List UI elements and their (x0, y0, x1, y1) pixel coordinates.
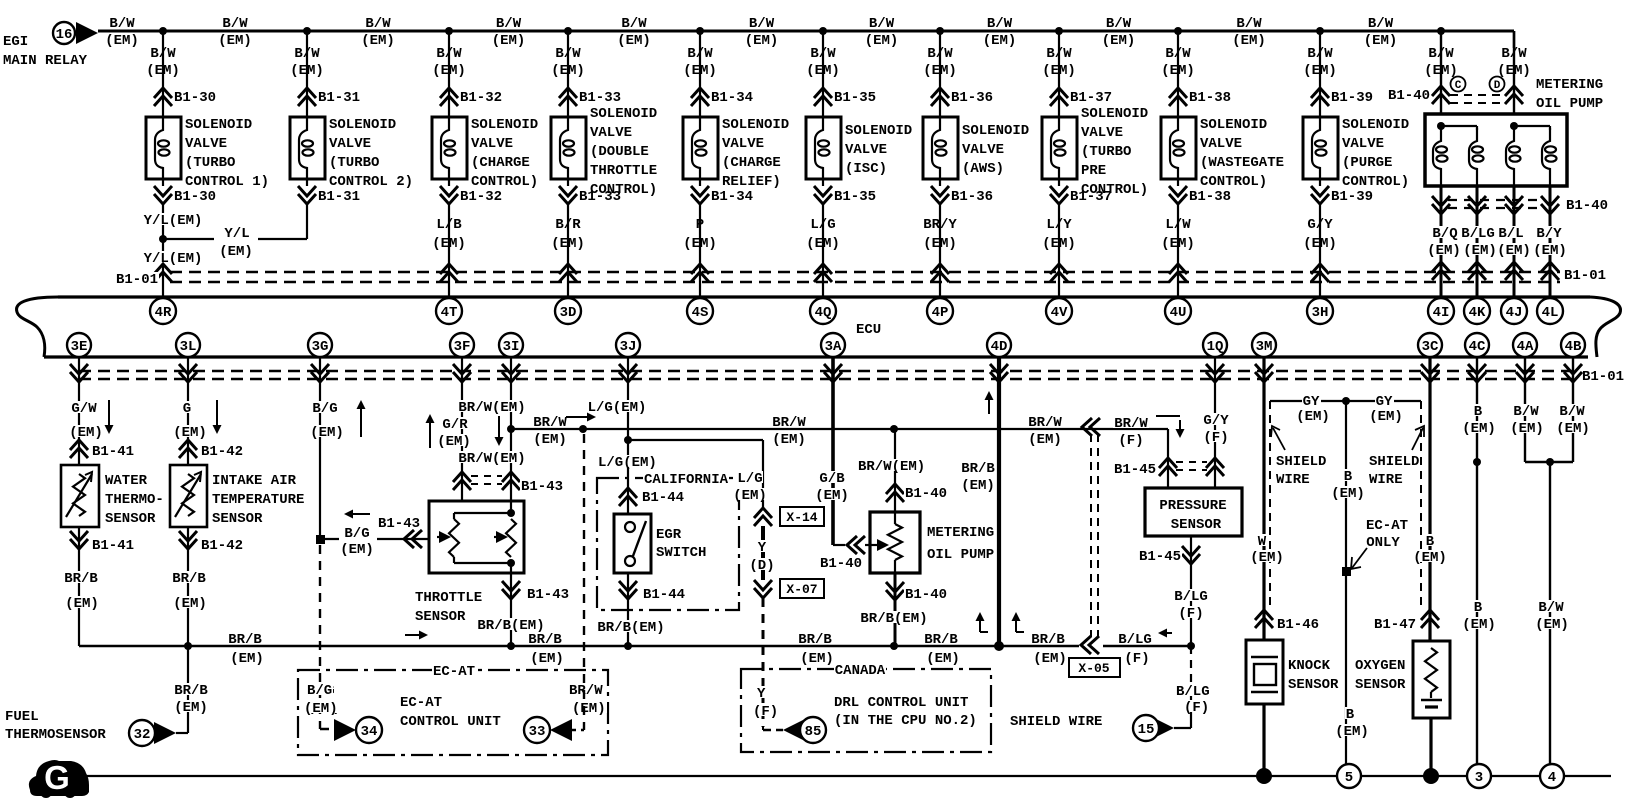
svg-text:CALIFORNIA: CALIFORNIA (644, 472, 729, 488)
svg-text:(EM): (EM) (926, 651, 960, 667)
svg-text:BR/B: BR/B (961, 461, 995, 477)
svg-text:(EM): (EM) (1369, 409, 1403, 425)
svg-text:SHIELD: SHIELD (1369, 454, 1419, 470)
svg-text:B: B (1474, 404, 1483, 420)
svg-text:SENSOR: SENSOR (105, 511, 156, 527)
svg-text:3F: 3F (454, 339, 471, 355)
svg-text:BR/W: BR/W (569, 683, 603, 699)
svg-text:(EM): (EM) (1331, 486, 1365, 502)
svg-text:3I: 3I (503, 339, 520, 355)
svg-text:4T: 4T (441, 305, 458, 321)
svg-text:(D): (D) (749, 558, 774, 574)
svg-text:BR/B(EM): BR/B(EM) (597, 620, 664, 636)
svg-text:B1-45: B1-45 (1139, 549, 1181, 565)
svg-text:(EM): (EM) (865, 33, 899, 49)
svg-text:SENSOR: SENSOR (1355, 677, 1406, 693)
svg-text:(EM): (EM) (1424, 63, 1458, 79)
svg-text:3: 3 (1475, 770, 1483, 786)
svg-text:B: B (1426, 534, 1435, 550)
svg-text:B/W: B/W (555, 46, 581, 62)
svg-text:(EM): (EM) (1533, 243, 1567, 259)
svg-text:(EM): (EM) (923, 63, 957, 79)
svg-text:(EM): (EM) (230, 651, 264, 667)
svg-text:B1-37: B1-37 (1070, 90, 1112, 106)
svg-text:SHIELD WIRE: SHIELD WIRE (1010, 714, 1102, 730)
svg-text:INTAKE AIR: INTAKE AIR (212, 473, 297, 489)
svg-text:ECU: ECU (856, 322, 881, 338)
svg-text:SOLENOID: SOLENOID (185, 117, 252, 133)
svg-text:Y/L(EM): Y/L(EM) (144, 213, 203, 229)
svg-text:L/B: L/B (436, 217, 462, 233)
svg-text:B1-47: B1-47 (1374, 617, 1416, 633)
svg-text:B1-32: B1-32 (460, 90, 502, 106)
svg-text:B/Q: B/Q (1432, 226, 1457, 242)
svg-text:CANADA: CANADA (835, 663, 886, 679)
svg-text:B1-42: B1-42 (201, 444, 243, 460)
svg-text:B/W: B/W (1236, 16, 1262, 32)
svg-text:3J: 3J (620, 339, 637, 355)
svg-text:85: 85 (805, 724, 822, 740)
svg-text:B/W: B/W (810, 46, 836, 62)
svg-text:3A: 3A (825, 339, 842, 355)
svg-text:B/W: B/W (1165, 46, 1191, 62)
svg-text:(EM): (EM) (572, 701, 606, 717)
svg-text:4U: 4U (1170, 305, 1187, 321)
svg-text:(EM): (EM) (1463, 243, 1497, 259)
svg-text:KNOCK: KNOCK (1288, 658, 1331, 674)
svg-text:L/G(EM): L/G(EM) (598, 455, 657, 471)
svg-text:(EM): (EM) (806, 236, 840, 252)
svg-text:B/W: B/W (1501, 46, 1527, 62)
svg-text:4R: 4R (155, 305, 172, 321)
svg-text:VALVE: VALVE (1200, 136, 1242, 152)
svg-text:(EM): (EM) (551, 236, 585, 252)
svg-text:15: 15 (1138, 722, 1155, 738)
svg-text:(PURGE: (PURGE (1342, 155, 1392, 171)
svg-text:B/LG: B/LG (1118, 632, 1152, 648)
svg-text:B1-38: B1-38 (1189, 189, 1231, 205)
svg-text:(EM): (EM) (1161, 63, 1195, 79)
svg-text:(EM): (EM) (1303, 63, 1337, 79)
svg-text:4: 4 (1548, 770, 1556, 786)
svg-text:THERMO-: THERMO- (105, 492, 164, 508)
svg-text:BR/W(EM): BR/W(EM) (858, 459, 925, 475)
svg-text:(EM): (EM) (1413, 550, 1447, 566)
svg-text:3D: 3D (560, 305, 577, 321)
svg-text:PRESSURE: PRESSURE (1159, 498, 1226, 514)
svg-text:SENSOR: SENSOR (1171, 517, 1222, 533)
svg-text:B/W: B/W (436, 46, 462, 62)
svg-text:B1-37: B1-37 (1070, 189, 1112, 205)
svg-text:4B: 4B (1565, 339, 1582, 355)
svg-text:SOLENOID: SOLENOID (722, 117, 789, 133)
svg-text:B1-44: B1-44 (642, 490, 684, 506)
svg-text:(EM): (EM) (1510, 421, 1544, 437)
svg-text:(EM): (EM) (1033, 651, 1067, 667)
svg-text:4A: 4A (1517, 339, 1534, 355)
svg-text:4D: 4D (991, 339, 1008, 355)
svg-text:B/L: B/L (1498, 226, 1523, 242)
svg-text:BR/W: BR/W (1114, 416, 1148, 432)
svg-text:B1-31: B1-31 (318, 189, 360, 205)
svg-text:SOLENOID: SOLENOID (1200, 117, 1267, 133)
svg-text:(F): (F) (1124, 651, 1149, 667)
svg-text:BR/Y: BR/Y (923, 217, 957, 233)
svg-text:16: 16 (56, 27, 73, 43)
svg-text:G/R: G/R (442, 417, 468, 433)
svg-text:(F): (F) (1178, 606, 1203, 622)
svg-text:RELIEF): RELIEF) (722, 174, 781, 190)
svg-text:CONTROL): CONTROL) (1342, 174, 1409, 190)
svg-text:G/B: G/B (819, 471, 845, 487)
svg-text:SOLENOID: SOLENOID (962, 123, 1029, 139)
svg-text:(EM): (EM) (1028, 432, 1062, 448)
svg-text:B1-43: B1-43 (378, 516, 420, 532)
svg-text:B1-01: B1-01 (1582, 369, 1624, 385)
svg-text:(EM): (EM) (1497, 63, 1531, 79)
svg-text:METERING: METERING (1536, 77, 1603, 93)
svg-text:CONTROL 1): CONTROL 1) (185, 174, 269, 190)
svg-text:B/Y: B/Y (1536, 226, 1562, 242)
svg-text:MAIN RELAY: MAIN RELAY (3, 53, 88, 69)
svg-text:(EM): (EM) (290, 63, 324, 79)
svg-text:TEMPERATURE: TEMPERATURE (212, 492, 304, 508)
svg-text:L/G(EM): L/G(EM) (588, 400, 647, 416)
svg-text:(EM): (EM) (1462, 421, 1496, 437)
svg-text:(ISC): (ISC) (845, 161, 887, 177)
svg-text:THERMOSENSOR: THERMOSENSOR (5, 727, 106, 743)
svg-text:EGI: EGI (3, 34, 28, 50)
svg-text:(EM): (EM) (772, 432, 806, 448)
svg-text:SWITCH: SWITCH (656, 545, 706, 561)
svg-text:(EM): (EM) (304, 701, 338, 717)
svg-text:(EM): (EM) (174, 700, 208, 716)
svg-text:G/Y: G/Y (1307, 217, 1333, 233)
svg-text:(EM): (EM) (733, 488, 767, 504)
svg-text:B1-44: B1-44 (643, 587, 685, 603)
svg-text:SOLENOID: SOLENOID (1081, 106, 1148, 122)
svg-text:VALVE: VALVE (845, 142, 887, 158)
svg-text:(EM): (EM) (800, 651, 834, 667)
svg-text:(EM): (EM) (432, 63, 466, 79)
svg-text:3E: 3E (71, 339, 88, 355)
svg-text:G: G (183, 401, 191, 417)
svg-text:B1-01: B1-01 (116, 272, 158, 288)
svg-text:P: P (696, 217, 704, 233)
svg-text:32: 32 (134, 727, 151, 743)
svg-text:B/W: B/W (1046, 46, 1072, 62)
svg-text:VALVE: VALVE (1081, 125, 1123, 141)
svg-text:(EM): (EM) (533, 432, 567, 448)
svg-text:(EM): (EM) (683, 63, 717, 79)
svg-text:B/G: B/G (344, 526, 369, 542)
svg-text:(EM): (EM) (1427, 243, 1461, 259)
svg-text:3M: 3M (1256, 339, 1273, 355)
svg-text:BR/W(EM): BR/W(EM) (458, 400, 525, 416)
svg-text:L/G: L/G (737, 471, 762, 487)
svg-text:C: C (1455, 80, 1462, 92)
svg-text:(DOUBLE: (DOUBLE (590, 144, 649, 160)
svg-text:EGR: EGR (656, 527, 682, 543)
svg-text:B/W: B/W (687, 46, 713, 62)
svg-text:(TURBO: (TURBO (1081, 144, 1131, 160)
svg-text:B/W: B/W (1538, 600, 1564, 616)
svg-text:(IN THE CPU NO.2): (IN THE CPU NO.2) (834, 713, 977, 729)
svg-text:(EM): (EM) (1161, 236, 1195, 252)
svg-text:B1-36: B1-36 (951, 189, 993, 205)
svg-text:B1-33: B1-33 (579, 189, 621, 205)
svg-text:X-07: X-07 (786, 582, 817, 597)
svg-text:B/W: B/W (365, 16, 391, 32)
svg-text:B1-42: B1-42 (201, 538, 243, 554)
svg-text:3L: 3L (180, 339, 197, 355)
svg-text:B1-40: B1-40 (1388, 88, 1430, 104)
svg-text:L/W: L/W (1165, 217, 1191, 233)
svg-text:B1-30: B1-30 (174, 90, 216, 106)
svg-text:G/Y: G/Y (1203, 413, 1229, 429)
svg-text:B/R: B/R (555, 217, 581, 233)
svg-text:B1-40: B1-40 (905, 587, 947, 603)
svg-text:(EM): (EM) (923, 236, 957, 252)
svg-text:B1-35: B1-35 (834, 189, 876, 205)
svg-text:L/Y: L/Y (1046, 217, 1072, 233)
svg-text:(EM): (EM) (146, 63, 180, 79)
svg-text:CONTROL): CONTROL) (471, 174, 538, 190)
svg-text:(EM): (EM) (1042, 63, 1076, 79)
svg-text:(EM): (EM) (815, 488, 849, 504)
svg-text:(EM): (EM) (310, 425, 344, 441)
svg-text:SENSOR: SENSOR (212, 511, 263, 527)
svg-text:(EM): (EM) (218, 33, 252, 49)
svg-text:BR/B: BR/B (924, 632, 958, 648)
svg-text:GY: GY (1376, 394, 1393, 410)
svg-text:B/LG: B/LG (1461, 226, 1495, 242)
svg-text:Y/L: Y/L (224, 226, 249, 242)
svg-text:SOLENOID: SOLENOID (471, 117, 538, 133)
svg-text:D: D (1494, 80, 1501, 92)
svg-text:BR/B: BR/B (174, 683, 208, 699)
svg-text:4L: 4L (1542, 305, 1559, 321)
svg-text:(EM): (EM) (1364, 33, 1398, 49)
svg-text:B1-39: B1-39 (1331, 189, 1373, 205)
svg-text:B1-46: B1-46 (1277, 617, 1319, 633)
svg-text:B1-43: B1-43 (521, 479, 563, 495)
svg-text:BR/B: BR/B (798, 632, 832, 648)
svg-text:B1-38: B1-38 (1189, 90, 1231, 106)
svg-text:B1-36: B1-36 (951, 90, 993, 106)
svg-text:G: G (44, 759, 70, 796)
svg-text:CONTROL UNIT: CONTROL UNIT (400, 714, 501, 730)
svg-text:(EM): (EM) (340, 542, 374, 558)
svg-text:VALVE: VALVE (1342, 136, 1384, 152)
svg-text:B1-40: B1-40 (1566, 198, 1608, 214)
svg-text:DRL CONTROL UNIT: DRL CONTROL UNIT (834, 695, 968, 711)
svg-text:(EM): (EM) (173, 425, 207, 441)
svg-text:(EM): (EM) (745, 33, 779, 49)
svg-text:B1-41: B1-41 (92, 444, 134, 460)
svg-text:SOLENOID: SOLENOID (845, 123, 912, 139)
svg-text:B/W: B/W (927, 46, 953, 62)
svg-text:(WASTEGATE: (WASTEGATE (1200, 155, 1284, 171)
svg-text:(EM): (EM) (1296, 409, 1330, 425)
svg-text:W: W (1258, 534, 1267, 550)
svg-text:BR/B: BR/B (172, 571, 206, 587)
svg-text:(EM): (EM) (219, 244, 253, 260)
svg-text:VALVE: VALVE (185, 136, 227, 152)
svg-text:B/G: B/G (307, 683, 332, 699)
svg-text:SHIELD: SHIELD (1276, 454, 1326, 470)
svg-text:4C: 4C (1469, 339, 1486, 355)
svg-text:(EM): (EM) (617, 33, 651, 49)
svg-text:33: 33 (529, 724, 546, 740)
svg-text:(EM): (EM) (1556, 421, 1590, 437)
svg-text:(EM): (EM) (1335, 724, 1369, 740)
svg-text:4S: 4S (692, 305, 709, 321)
svg-text:EC-AT: EC-AT (433, 664, 475, 680)
svg-text:B/W: B/W (621, 16, 647, 32)
svg-text:B1-35: B1-35 (834, 90, 876, 106)
svg-text:B/W: B/W (150, 46, 176, 62)
svg-text:(F): (F) (1203, 430, 1228, 446)
svg-text:B/W: B/W (869, 16, 895, 32)
svg-text:5: 5 (1345, 770, 1353, 786)
svg-text:B/W: B/W (1513, 404, 1539, 420)
svg-text:B/W: B/W (222, 16, 248, 32)
svg-text:OXYGEN: OXYGEN (1355, 658, 1405, 674)
svg-text:(EM): (EM) (1042, 236, 1076, 252)
svg-text:4J: 4J (1506, 305, 1523, 321)
svg-text:THROTTLE: THROTTLE (415, 590, 482, 606)
svg-text:(EM): (EM) (1497, 243, 1531, 259)
svg-text:SENSOR: SENSOR (1288, 677, 1339, 693)
svg-text:1Q: 1Q (1207, 339, 1224, 355)
svg-text:B1-34: B1-34 (711, 189, 753, 205)
svg-text:WIRE: WIRE (1276, 472, 1310, 488)
svg-text:L/G: L/G (810, 217, 835, 233)
svg-text:(TURBO: (TURBO (185, 155, 235, 171)
svg-text:(TURBO: (TURBO (329, 155, 379, 171)
svg-text:(EM): (EM) (961, 478, 995, 494)
svg-text:BR/B: BR/B (1031, 632, 1065, 648)
svg-text:(CHARGE: (CHARGE (722, 155, 781, 171)
svg-text:4P: 4P (932, 305, 949, 321)
svg-text:(EM): (EM) (530, 651, 564, 667)
svg-text:SOLENOID: SOLENOID (1342, 117, 1409, 133)
svg-text:34: 34 (361, 724, 378, 740)
svg-text:(EM): (EM) (1303, 236, 1337, 252)
svg-text:BR/B: BR/B (528, 632, 562, 648)
svg-text:CONTROL 2): CONTROL 2) (329, 174, 413, 190)
svg-text:B1-41: B1-41 (92, 538, 134, 554)
svg-text:VALVE: VALVE (962, 142, 1004, 158)
svg-text:B1-45: B1-45 (1114, 462, 1156, 478)
svg-text:B/W: B/W (987, 16, 1013, 32)
svg-text:(F): (F) (1184, 700, 1209, 716)
svg-text:B/LG: B/LG (1174, 589, 1208, 605)
svg-text:B/W: B/W (496, 16, 522, 32)
svg-text:EC-AT: EC-AT (1366, 518, 1408, 534)
svg-text:B/LG: B/LG (1176, 684, 1210, 700)
svg-text:4I: 4I (1433, 305, 1450, 321)
svg-text:BR/B: BR/B (228, 632, 262, 648)
svg-text:(EM): (EM) (1535, 617, 1569, 633)
svg-text:(EM): (EM) (683, 236, 717, 252)
svg-text:THROTTLE: THROTTLE (590, 163, 657, 179)
svg-text:X-05: X-05 (1078, 661, 1109, 676)
svg-text:4K: 4K (1469, 305, 1486, 321)
svg-text:(AWS): (AWS) (962, 161, 1004, 177)
svg-text:BR/B(EM): BR/B(EM) (860, 611, 927, 627)
svg-text:3G: 3G (312, 339, 329, 355)
svg-text:B1-34: B1-34 (711, 90, 753, 106)
svg-text:WATER: WATER (105, 473, 148, 489)
svg-text:(EM): (EM) (105, 33, 139, 49)
svg-text:B/W: B/W (109, 16, 135, 32)
svg-text:Y: Y (758, 540, 767, 556)
svg-text:EC-AT: EC-AT (400, 695, 442, 711)
svg-text:B1-43: B1-43 (527, 587, 569, 603)
svg-text:Y: Y (757, 686, 766, 702)
svg-text:Y/L(EM): Y/L(EM) (144, 251, 203, 267)
svg-text:(EM): (EM) (437, 434, 471, 450)
svg-text:(EM): (EM) (983, 33, 1017, 49)
svg-text:B1-32: B1-32 (460, 189, 502, 205)
svg-text:3H: 3H (1312, 305, 1329, 321)
svg-text:B/W: B/W (294, 46, 320, 62)
svg-text:B: B (1346, 707, 1355, 723)
svg-text:B1-40: B1-40 (905, 486, 947, 502)
svg-text:B/W: B/W (1368, 16, 1394, 32)
svg-text:(EM): (EM) (432, 236, 466, 252)
svg-text:(EM): (EM) (492, 33, 526, 49)
svg-text:SOLENOID: SOLENOID (590, 106, 657, 122)
svg-text:B/G: B/G (312, 401, 337, 417)
svg-text:B1-33: B1-33 (579, 90, 621, 106)
svg-text:SOLENOID: SOLENOID (329, 117, 396, 133)
svg-text:VALVE: VALVE (329, 136, 371, 152)
svg-text:B/W: B/W (1106, 16, 1132, 32)
svg-text:FUEL: FUEL (5, 709, 39, 725)
svg-text:4Q: 4Q (815, 305, 832, 321)
svg-text:PRE: PRE (1081, 163, 1106, 179)
svg-text:(EM): (EM) (361, 33, 395, 49)
svg-text:(EM): (EM) (1462, 617, 1496, 633)
svg-text:(F): (F) (1118, 433, 1143, 449)
svg-text:B: B (1474, 600, 1483, 616)
svg-text:WIRE: WIRE (1369, 472, 1403, 488)
svg-text:(EM): (EM) (65, 596, 99, 612)
svg-text:B1-30: B1-30 (174, 189, 216, 205)
svg-text:B1-39: B1-39 (1331, 90, 1373, 106)
svg-text:(EM): (EM) (1102, 33, 1136, 49)
svg-text:(EM): (EM) (806, 63, 840, 79)
svg-text:B/W: B/W (1559, 404, 1585, 420)
svg-text:4V: 4V (1051, 305, 1068, 321)
svg-text:B1-01: B1-01 (1564, 268, 1606, 284)
svg-text:(EM): (EM) (173, 596, 207, 612)
svg-text:(EM): (EM) (1232, 33, 1266, 49)
svg-text:CONTROL): CONTROL) (1200, 174, 1267, 190)
svg-text:B/W: B/W (749, 16, 775, 32)
svg-text:BR/W: BR/W (1028, 415, 1062, 431)
svg-text:B1-31: B1-31 (318, 90, 360, 106)
svg-text:(EM): (EM) (69, 425, 103, 441)
svg-text:VALVE: VALVE (722, 136, 764, 152)
svg-text:OIL PUMP: OIL PUMP (1536, 96, 1603, 112)
svg-text:B: B (1344, 469, 1353, 485)
svg-text:BR/W: BR/W (772, 415, 806, 431)
svg-text:B/W: B/W (1428, 46, 1454, 62)
